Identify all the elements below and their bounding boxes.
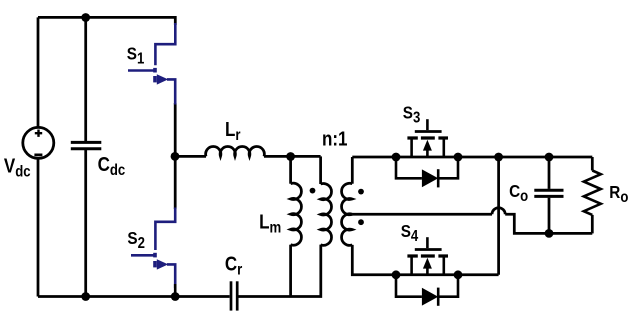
diode D4 (body diode of S4) — [396, 275, 458, 306]
transistor S3 — [407, 119, 448, 157]
transformer secondary winding lower — [342, 214, 353, 246]
svg-text:S3: S3 — [403, 102, 421, 126]
svg-text:Lm: Lm — [259, 210, 281, 237]
wire Cdc top lead — [84, 17, 87, 141]
node dot bottom rail S2 — [171, 292, 180, 301]
wire bottom rail left of Cr — [38, 295, 230, 298]
wire center tap to output return — [505, 214, 592, 233]
wire secondary bottom to S4 — [352, 245, 498, 275]
polarity dot primary — [310, 188, 316, 194]
capacitor Cdc — [71, 142, 102, 148]
wire crossover hop — [492, 208, 505, 215]
svg-text:Cdc: Cdc — [98, 153, 126, 180]
wire bottom rail right of Cr — [238, 245, 320, 297]
wire secondary top lead — [351, 157, 354, 184]
wire Lm top lead — [289, 156, 292, 183]
wire Lr to primary top — [264, 155, 321, 158]
wire half-bridge midpoint vertical — [174, 103, 177, 209]
node dot S4 anode — [392, 270, 401, 279]
capacitor Co — [534, 190, 563, 196]
node dot half-bridge midpoint — [171, 152, 180, 161]
wire S2 source to rail — [174, 284, 177, 297]
wire Co bottom lead — [548, 198, 551, 234]
svg-text:n:1: n:1 — [322, 127, 347, 150]
svg-text:S4: S4 — [401, 221, 419, 245]
node dot output rail / S4 drain — [494, 153, 503, 162]
polarity dot secondary upper — [358, 189, 364, 195]
diode D3 (body diode of S3) — [396, 157, 458, 187]
wire center tap — [352, 213, 492, 216]
svg-text:Lr: Lr — [225, 118, 241, 145]
wire Lm bottom lead — [289, 245, 292, 297]
wire Vdc top lead — [37, 17, 40, 128]
wire primary top lead — [319, 156, 322, 184]
inductor Lr — [206, 147, 265, 157]
node dot Lm top — [286, 152, 295, 161]
wire Ro bottom lead — [591, 215, 594, 234]
wire Co top lead — [548, 157, 551, 189]
wire S4 drain up to output rail — [497, 157, 500, 275]
voltage source Vdc — [23, 127, 54, 158]
wire Vdc bottom lead — [37, 158, 40, 297]
node dot S4 cathode — [454, 270, 463, 279]
node dot S3 anode — [392, 153, 401, 162]
capacitor Cr — [231, 281, 237, 310]
svg-text:Ro: Ro — [609, 182, 628, 206]
svg-text:Vdc: Vdc — [4, 154, 31, 181]
node dot Co bottom — [545, 229, 554, 238]
node dot Co top — [545, 153, 554, 162]
resistor Ro — [584, 171, 601, 215]
transformer secondary winding upper — [342, 183, 353, 215]
transformer primary winding — [321, 184, 332, 246]
wire Cdc bottom lead — [84, 150, 87, 297]
wire Ro top lead — [591, 157, 594, 171]
svg-text:Co: Co — [509, 181, 528, 205]
transistor S4 — [407, 237, 448, 275]
svg-text:S2: S2 — [127, 228, 145, 252]
node dot bottom rail Cdc — [81, 292, 90, 301]
svg-text:Cr: Cr — [225, 252, 243, 279]
transistor S1 — [128, 23, 175, 105]
node dot S3 cathode — [454, 153, 463, 162]
wire top rail — [38, 17, 175, 25]
transistor S2 — [131, 208, 175, 289]
wire midpoint to Lr — [175, 155, 206, 158]
svg-text:S1: S1 — [127, 43, 145, 67]
wire secondary top to output rail — [352, 156, 592, 159]
inductor Lm — [291, 183, 302, 245]
node dot top rail / Cdc — [81, 13, 90, 22]
polarity dot secondary lower — [358, 219, 364, 225]
